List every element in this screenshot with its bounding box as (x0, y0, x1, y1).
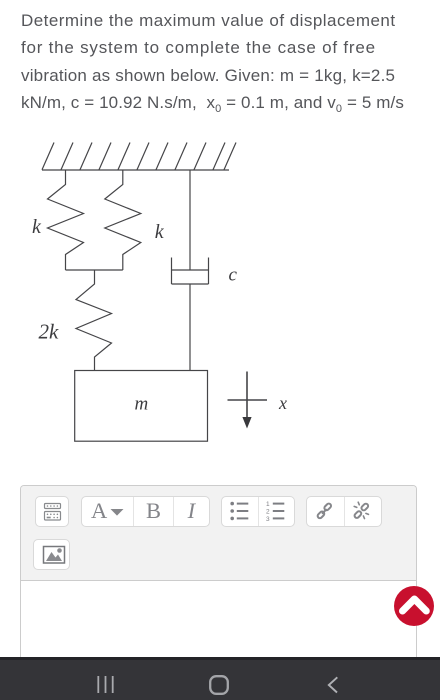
svg-text:1: 1 (266, 501, 270, 508)
list buttons group (221, 496, 296, 528)
spring k (left) (48, 170, 84, 270)
svg-text:m: m (135, 394, 149, 415)
svg-text:3: 3 (266, 516, 270, 521)
android navigation bar (0, 657, 440, 700)
editor toolbar (21, 486, 416, 581)
bar joining springs (66, 269, 123, 271)
damper c (172, 170, 209, 371)
mass m box (75, 371, 208, 442)
scroll-to-top red button (394, 586, 434, 626)
font / bold / italic group (81, 496, 210, 528)
svg-text:2: 2 (266, 509, 270, 516)
spring k (right) (105, 170, 141, 270)
svg-text:x: x (278, 393, 287, 413)
spring–mass–damper diagram (28, 136, 290, 446)
editor content area (21, 581, 416, 657)
x axis arrow (228, 372, 268, 419)
back icon (327, 676, 339, 694)
svg-text:c: c (229, 265, 238, 286)
question text (21, 7, 437, 119)
svg-text:k: k (32, 216, 42, 238)
ceiling hatching (42, 143, 236, 170)
recents icon (97, 676, 114, 693)
svg-text:2k: 2k (39, 320, 60, 344)
editor container (20, 485, 417, 657)
ceiling line (42, 169, 229, 171)
svg-text:k: k (155, 221, 165, 243)
spring 2k (76, 270, 112, 371)
home icon (209, 675, 229, 695)
image button (33, 539, 70, 570)
link buttons group (306, 496, 382, 528)
toolbar toggle button (35, 496, 70, 527)
